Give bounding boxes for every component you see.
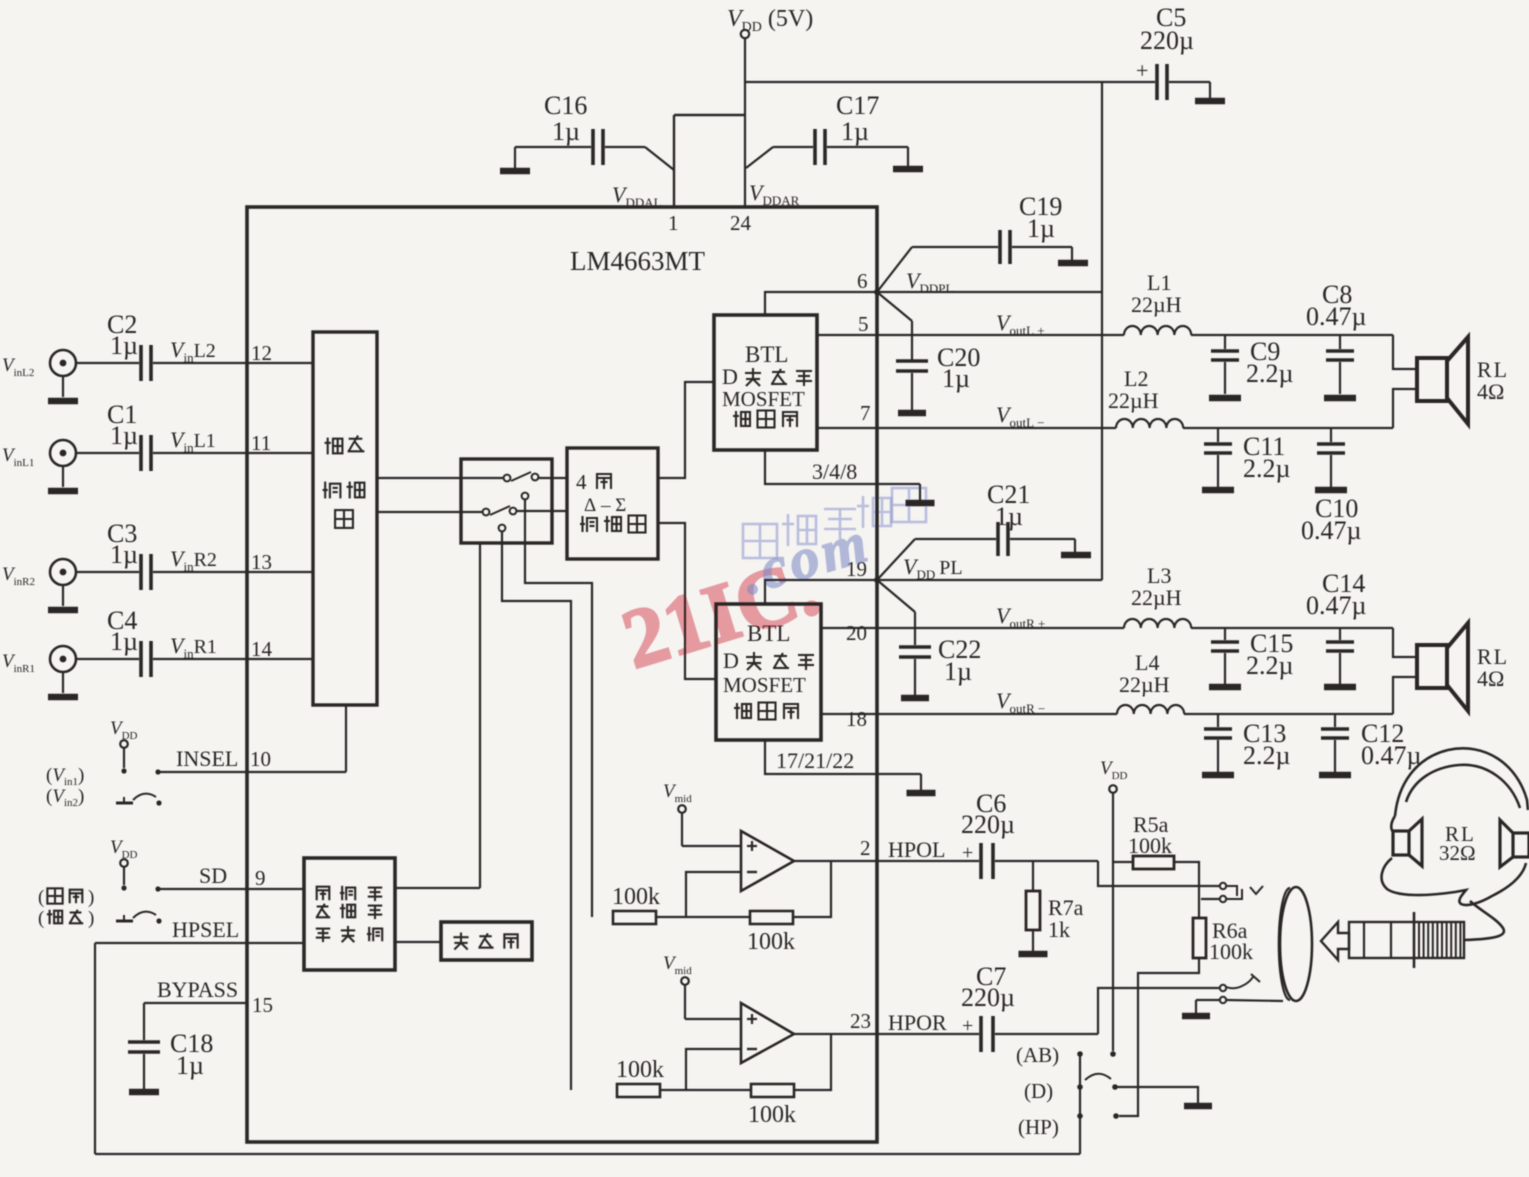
block input selector <box>313 332 377 705</box>
svg-text:4Ω: 4Ω <box>1477 666 1504 691</box>
svg-text:3/4/8: 3/4/8 <box>812 459 857 484</box>
svg-text:(: ( <box>38 908 44 929</box>
svg-text:0.47µ: 0.47µ <box>1301 516 1362 545</box>
switch S1 L <box>504 475 511 482</box>
ground C20 <box>898 410 926 417</box>
svg-text:): ) <box>88 887 94 908</box>
junction INSEL wire <box>155 769 160 774</box>
wire INSEL riser to selector <box>345 705 347 772</box>
ground VinL2 <box>48 398 78 405</box>
svg-text:20: 20 <box>846 621 867 645</box>
capacitor C7 <box>877 1033 979 1035</box>
capacitor C1 <box>76 452 139 454</box>
wire opamp2 feedback <box>686 1049 741 1090</box>
wire HPOL to jack tip <box>1098 861 1219 886</box>
svg-text:1µ: 1µ <box>942 364 970 393</box>
svg-text:C17: C17 <box>836 91 879 120</box>
speaker RL right channel <box>1417 645 1447 688</box>
svg-text:1µ: 1µ <box>176 1051 204 1080</box>
ground VinR1 <box>48 694 78 701</box>
wire HPSEL <box>95 942 304 944</box>
connector VinR2 <box>50 559 76 585</box>
switch contact up <box>522 493 529 500</box>
switch INSEL wiper <box>133 794 156 800</box>
wire mode D to ground <box>1115 1087 1198 1103</box>
svg-text:22µH: 22µH <box>1131 292 1182 317</box>
headphone plug arrow <box>1321 922 1349 960</box>
svg-text:VDD (5V): VDD (5V) <box>727 6 813 35</box>
op-amp U2 triangle <box>741 1003 794 1063</box>
svg-text:VinR2: VinR2 <box>170 546 217 574</box>
wire VDDPL rail <box>877 291 1102 293</box>
headphone speaker left <box>1393 831 1409 855</box>
junction SD wire <box>155 886 160 891</box>
wire VDD top rail to C5 <box>744 81 1155 83</box>
svg-text:13: 13 <box>251 550 272 574</box>
svg-text:MOSFET: MOSFET <box>722 387 805 411</box>
svg-text:D: D <box>722 364 738 389</box>
capacitor C4 <box>76 658 139 660</box>
block BTL1 class-D output L <box>714 315 817 450</box>
capacitor C12 <box>1334 714 1336 727</box>
wire opamp1 feedback <box>686 872 741 917</box>
connector VinL1 <box>50 440 76 466</box>
svg-text:+: + <box>962 842 973 864</box>
junction mode HP <box>1077 1113 1083 1119</box>
svg-text:100k: 100k <box>1209 939 1253 964</box>
op-amp U1 minus <box>747 871 757 873</box>
resistor R6a <box>1193 918 1206 958</box>
svg-text:VinL2: VinL2 <box>170 337 216 365</box>
ground R7a <box>1019 951 1048 958</box>
svg-text:220µ: 220µ <box>961 983 1015 1012</box>
svg-text:4: 4 <box>576 470 587 494</box>
capacitor C20 <box>896 359 928 363</box>
ground C5 <box>1195 98 1225 105</box>
connector VinR1 <box>50 646 76 672</box>
wire 100k to opamp1 output <box>793 861 831 917</box>
svg-text:2: 2 <box>860 836 871 860</box>
svg-text:100k: 100k <box>747 929 795 955</box>
svg-text:+: + <box>962 1015 973 1037</box>
svg-text:1: 1 <box>668 211 679 235</box>
svg-text:22µH: 22µH <box>1108 388 1159 413</box>
wire C16 to pin 1 <box>645 147 674 170</box>
junction SD contact <box>121 885 126 890</box>
wire mute to switch <box>395 887 480 889</box>
wire switch box to mute block <box>479 543 481 888</box>
ground C22 <box>901 695 929 702</box>
junction mode AB <box>1077 1051 1083 1057</box>
wire BTL2 to pin 19 <box>765 580 875 604</box>
wire switch to opamp1 100k <box>525 500 592 917</box>
svg-text:(: ( <box>38 887 44 908</box>
wire switch to opamp2 100k <box>502 532 571 1090</box>
wire pin6 to C19 <box>877 247 912 292</box>
capacitor C17 <box>813 129 817 165</box>
resistor 100k opamp1 feedback <box>750 911 793 924</box>
svg-text:22µH: 22µH <box>1131 585 1182 610</box>
wire pin19 to C22 <box>877 580 915 612</box>
jack contact tip sense <box>1220 896 1226 902</box>
resistor R7a <box>1032 861 1034 891</box>
wire pin6 to C20 <box>877 292 912 321</box>
svg-text:HPOR: HPOR <box>888 1010 947 1035</box>
svg-text:4Ω: 4Ω <box>1477 379 1504 404</box>
svg-text:(AB): (AB) <box>1016 1043 1059 1067</box>
svg-text:2.2µ: 2.2µ <box>1243 741 1291 770</box>
svg-text:INSEL: INSEL <box>176 746 238 771</box>
svg-text:1µ: 1µ <box>944 657 972 686</box>
svg-text:C16: C16 <box>544 91 587 120</box>
svg-text:0.47µ: 0.47µ <box>1306 591 1367 620</box>
ground C17 <box>893 166 923 173</box>
capacitor C2 <box>76 362 139 364</box>
svg-text:BYPASS: BYPASS <box>157 977 238 1002</box>
watermark 21IC red <box>612 540 829 687</box>
capacitor C21 <box>996 522 1000 556</box>
terminal VDD sd <box>120 859 128 867</box>
wire opamp2 output pin 23 <box>794 1033 877 1035</box>
svg-text:100k: 100k <box>612 884 660 910</box>
wire mode switch pole <box>1079 1054 1081 1154</box>
svg-text:Δ – Σ: Δ – Σ <box>584 495 626 516</box>
op-amp U2 minus <box>747 1048 757 1050</box>
ground C9 <box>1209 395 1241 402</box>
ground jack sleeve <box>1182 1013 1210 1020</box>
capacitor C15 <box>1224 628 1226 640</box>
svg-text:1µ: 1µ <box>110 627 138 656</box>
wire VDD vertical to pin 24 <box>744 38 746 207</box>
wire between 100k opamp2 <box>660 1089 751 1091</box>
wire HPSEL drop <box>94 943 96 1154</box>
svg-text:1µ: 1µ <box>1027 214 1055 243</box>
wire opamp1 output pin 2 <box>794 860 877 862</box>
wire VDD hp vertical <box>1112 793 1114 1051</box>
svg-text:220µ: 220µ <box>1140 26 1194 55</box>
ground C10 <box>1315 487 1347 494</box>
ground C8 <box>1324 395 1356 402</box>
svg-text:12: 12 <box>251 341 272 365</box>
switch INSEL ground stub <box>123 797 125 803</box>
wire L4 to speaker R- <box>1184 713 1393 715</box>
wire VoutR- rail <box>821 713 1117 715</box>
svg-text:15: 15 <box>252 993 273 1017</box>
junction pin 6 <box>874 289 880 295</box>
svg-text:100k: 100k <box>748 1102 796 1128</box>
block click-pop suppression <box>304 858 395 970</box>
ground VinR2 <box>48 607 78 614</box>
jack tip spring mark <box>1250 886 1263 894</box>
svg-text:D: D <box>723 648 739 673</box>
IC U1 LM4663MT outline <box>247 207 877 1142</box>
switch mode wiper <box>1085 1074 1111 1080</box>
wire VoutR+ rail <box>821 627 1124 629</box>
svg-text:14: 14 <box>251 637 273 661</box>
block delta-sigma modulator <box>567 448 658 559</box>
ground pins 17/21/22 <box>907 790 936 797</box>
speaker RL left channel <box>1417 358 1447 401</box>
svg-text:7: 7 <box>860 401 871 425</box>
watermark .com blue <box>734 509 877 607</box>
svg-text:1µ: 1µ <box>110 421 138 450</box>
ground C21 <box>1061 552 1091 559</box>
switch contact down <box>499 525 506 532</box>
wire selector out L <box>377 477 503 479</box>
ground C15 <box>1209 684 1241 691</box>
ground C16 <box>500 168 530 175</box>
wire selector out R <box>377 511 482 513</box>
wire R5a to R6a <box>1174 862 1199 918</box>
wire BYPASS <box>144 1002 247 1004</box>
wire L3 to speaker R+ <box>1191 627 1393 629</box>
wire bottom mode rail <box>95 1153 1080 1155</box>
wire pin19 to C21 <box>877 539 915 580</box>
wire BTL1 to pin 6 <box>765 292 875 315</box>
svg-text:HPOL: HPOL <box>888 837 945 862</box>
svg-text:1µ: 1µ <box>110 540 138 569</box>
wire L1 to speaker L+ <box>1191 334 1393 336</box>
terminal VDD hp <box>1109 785 1117 793</box>
resistor 100k opamp2 feedback <box>751 1084 794 1097</box>
svg-text:6: 6 <box>857 269 868 293</box>
terminal Vmid opamp2 <box>681 977 689 985</box>
svg-text:MOSFET: MOSFET <box>723 673 806 697</box>
ground VinL1 <box>48 488 78 495</box>
wire R5a junction to jack contact2 <box>1201 898 1219 900</box>
ground pins 3/4/8 <box>906 500 935 507</box>
junction pin 19 <box>874 577 880 583</box>
inductor L1 <box>1124 326 1191 335</box>
svg-text:11: 11 <box>251 431 271 455</box>
wire modulator to BTL2 <box>658 523 716 679</box>
capacitor C18 <box>143 1003 145 1040</box>
switch SD ground stub <box>123 915 125 921</box>
wire R6a bottom to HP contact <box>1119 958 1199 1116</box>
capacitor C22 <box>899 645 931 649</box>
junction mode HP contact <box>1113 1113 1119 1119</box>
resistor 100k opamp2 input <box>617 1084 660 1097</box>
svg-text:2.2µ: 2.2µ <box>1246 651 1294 680</box>
wire modulator to BTL1 <box>658 382 714 478</box>
headphones RL 32ohm drawing <box>1382 748 1528 940</box>
capacitor C8 <box>1339 335 1341 349</box>
svg-text:5: 5 <box>858 312 869 336</box>
ground C19 <box>1058 260 1088 267</box>
ground C14 <box>1324 684 1356 691</box>
jack socket disc <box>1280 887 1312 1001</box>
wire VDDPL drop rail <box>1101 82 1103 580</box>
resistor R5a <box>1113 861 1133 863</box>
terminal Vmid opamp1 <box>678 805 686 813</box>
capacitor C6 <box>877 860 979 862</box>
wire VoutL+ rail <box>817 334 1124 336</box>
capacitor C11 <box>1217 428 1219 442</box>
ground C18 <box>129 1089 159 1096</box>
svg-text:0.47µ: 0.47µ <box>1306 302 1367 331</box>
svg-text:(HP): (HP) <box>1018 1115 1059 1139</box>
ground C13 <box>1202 772 1234 779</box>
jack contact sleeve <box>1220 997 1226 1003</box>
svg-text:VinR1: VinR1 <box>170 633 217 661</box>
svg-text:220µ: 220µ <box>961 810 1015 839</box>
svg-text:24: 24 <box>730 211 752 235</box>
svg-text:1µ: 1µ <box>110 331 138 360</box>
svg-text:100k: 100k <box>1128 833 1172 858</box>
wire HPOR to jack ring <box>1098 988 1219 1034</box>
svg-text:9: 9 <box>255 866 266 890</box>
switch S1 R <box>483 509 490 516</box>
ground mode D <box>1184 1103 1212 1110</box>
capacitor C13 <box>1217 714 1219 727</box>
svg-text:LM4663MT: LM4663MT <box>570 246 706 276</box>
junction mode D contact <box>1112 1084 1118 1090</box>
terminal VDD insel <box>120 740 128 748</box>
wire BTL2 gnd pins 17/21/22 <box>765 740 921 774</box>
capacitor C19 <box>998 230 1002 264</box>
jack contact tip <box>1220 883 1226 889</box>
connector VinL2 <box>50 350 76 376</box>
wire C4 to pin 14 <box>153 658 313 660</box>
wire pin 24 to C17 <box>746 147 773 168</box>
svg-text:17/21/22: 17/21/22 <box>776 748 854 773</box>
svg-text:23: 23 <box>850 1009 871 1033</box>
junction Vin1 contact <box>121 768 126 773</box>
wire VoutL- rail <box>817 427 1116 429</box>
svg-text:BTL: BTL <box>747 621 790 646</box>
switch SD wiper <box>133 912 156 918</box>
block BTL2 class-D output R <box>716 604 821 740</box>
inductor L4 <box>1117 705 1184 714</box>
op-amp U1 triangle <box>741 831 794 891</box>
svg-text:32Ω: 32Ω <box>1439 841 1476 865</box>
svg-text:22µH: 22µH <box>1119 672 1170 697</box>
svg-text:HPSEL: HPSEL <box>172 917 239 942</box>
svg-text:SD: SD <box>199 863 227 888</box>
svg-text:(D): (D) <box>1024 1079 1053 1103</box>
svg-text:+: + <box>1136 58 1148 83</box>
block input switch <box>461 459 552 543</box>
svg-text:100k: 100k <box>616 1057 664 1083</box>
capacitor C10 <box>1330 428 1332 442</box>
wire SD <box>158 888 304 890</box>
watermark cn chars blue <box>743 524 777 558</box>
junction VDD end <box>1110 1051 1116 1057</box>
junction mode D <box>1077 1084 1083 1090</box>
capacitor C14 <box>1339 628 1341 640</box>
wire C1 to pin 11 <box>153 452 313 454</box>
capacitor C3 <box>76 571 139 573</box>
wire L2 to speaker L- <box>1183 427 1393 429</box>
svg-text:1µ: 1µ <box>841 117 869 146</box>
wire C3 to pin 13 <box>153 571 313 573</box>
svg-text:): ) <box>88 908 94 929</box>
svg-text:10: 10 <box>250 747 271 771</box>
block thermal shutdown <box>441 922 532 960</box>
headphone plug body <box>1349 922 1464 958</box>
wire mute to thermal <box>395 941 441 943</box>
headphone speaker right <box>1513 833 1529 857</box>
ground C12 <box>1319 772 1351 779</box>
IC notch pins 1-24 <box>673 115 675 207</box>
svg-text:1k: 1k <box>1048 917 1070 942</box>
svg-text:19: 19 <box>846 557 867 581</box>
svg-text:BTL: BTL <box>745 342 788 367</box>
terminal VDD 5V <box>741 30 749 38</box>
svg-text:VinL1: VinL1 <box>170 427 216 455</box>
wire between 100k opamp1 <box>656 916 750 918</box>
wire BTL1 gnd pins 3/4/8 <box>765 450 920 484</box>
capacitor C16 <box>514 147 516 150</box>
svg-text:1µ: 1µ <box>552 117 580 146</box>
capacitor C9 <box>1224 335 1226 349</box>
resistor 100k opamp1 input <box>613 911 656 924</box>
inductor L2 <box>1116 419 1183 428</box>
svg-text:2.2µ: 2.2µ <box>1246 359 1294 388</box>
wire pin19 rail <box>877 579 1102 581</box>
wire C2 to pin 12 <box>153 362 313 364</box>
wire sleeve to ground <box>1196 999 1220 1001</box>
op-amp U2 plus <box>747 1018 757 1020</box>
svg-text:0.47µ: 0.47µ <box>1361 741 1422 770</box>
ground C11 <box>1202 487 1234 494</box>
svg-text:2.2µ: 2.2µ <box>1243 454 1291 483</box>
op-amp U1 plus <box>747 845 757 847</box>
wire INSEL <box>158 771 346 773</box>
svg-text:18: 18 <box>846 707 867 731</box>
wire 100k to opamp2 output <box>794 1034 831 1090</box>
inductor L3 <box>1124 619 1191 628</box>
jack contact ring <box>1220 985 1226 991</box>
